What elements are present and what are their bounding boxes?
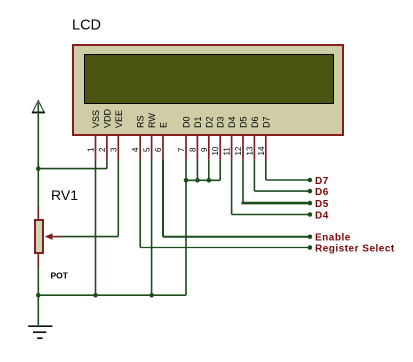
pin stub 9 bbox=[208, 136, 210, 160]
wire: D0-D3 tie bus bbox=[186, 179, 220, 181]
wire: D5 horizontal to terminal (thick) bbox=[242, 202, 310, 205]
pin stub 12 bbox=[242, 136, 244, 160]
svg-text:D0: D0 bbox=[182, 116, 192, 128]
svg-text:14: 14 bbox=[257, 146, 266, 155]
wire: pin14 D7 vertical bbox=[265, 160, 267, 180]
svg-text:VEE: VEE bbox=[114, 110, 124, 128]
svg-text:D6: D6 bbox=[250, 116, 260, 128]
pin stub 2 bbox=[106, 136, 108, 160]
ground symbol bbox=[28, 326, 52, 338]
pot lead bottom bbox=[37, 253, 39, 267]
svg-text:RW: RW bbox=[147, 113, 157, 128]
wire: pin1 VSS down to ground bus bbox=[95, 160, 97, 296]
wire: pin7 D0 vertical bbox=[185, 160, 187, 181]
svg-text:D5: D5 bbox=[315, 199, 329, 210]
svg-text:D3: D3 bbox=[216, 116, 226, 128]
junction D2 tie bbox=[207, 178, 212, 183]
pot wiper arrow bbox=[50, 236, 62, 238]
svg-text:5: 5 bbox=[143, 147, 152, 152]
svg-text:POT: POT bbox=[51, 271, 69, 281]
wire: pin5 RW down to ground bus bbox=[151, 160, 153, 296]
pin stub 6 bbox=[162, 136, 164, 160]
pin stubs (component pins, dark red) bbox=[96, 136, 266, 160]
pin stub 3 bbox=[117, 136, 119, 160]
pin stub 10 bbox=[219, 136, 221, 160]
svg-text:LCD: LCD bbox=[72, 18, 101, 34]
wire: ground bus bottom bbox=[38, 294, 186, 296]
svg-text:D4: D4 bbox=[315, 210, 329, 221]
LCD screen bbox=[85, 55, 334, 104]
svg-text:10: 10 bbox=[211, 146, 220, 155]
wire: D7 horizontal to terminal bbox=[266, 179, 310, 181]
wire: RS horizontal to Register Select terminal bbox=[140, 247, 310, 249]
pin stub 8 bbox=[196, 136, 198, 160]
svg-text:11: 11 bbox=[223, 147, 232, 156]
svg-text:Register Select: Register Select bbox=[315, 243, 395, 254]
junction D1 tie bbox=[195, 178, 200, 183]
wire: pin10 D3 vertical bbox=[219, 160, 221, 181]
svg-text:8: 8 bbox=[188, 147, 197, 152]
svg-text:D2: D2 bbox=[204, 116, 214, 128]
svg-text:13: 13 bbox=[245, 146, 254, 155]
svg-text:9: 9 bbox=[200, 147, 209, 152]
svg-text:6: 6 bbox=[154, 147, 163, 152]
svg-text:D6: D6 bbox=[315, 187, 329, 198]
svg-text:RV1: RV1 bbox=[51, 187, 78, 203]
wire: pin8 D1 vertical bbox=[196, 160, 198, 181]
wire: pin13 D6 vertical bbox=[253, 160, 255, 191]
wire: D4 horizontal to terminal bbox=[232, 214, 310, 216]
pin stub 5 bbox=[151, 136, 153, 160]
wire: pot bottom to ground bbox=[37, 266, 39, 325]
svg-text:12: 12 bbox=[234, 146, 243, 155]
terminal dot D7 bbox=[308, 178, 313, 183]
wire: pin2 vertical bbox=[106, 160, 108, 169]
svg-text:7: 7 bbox=[177, 147, 186, 152]
wire: D0 net down to ground bus bbox=[185, 180, 187, 295]
power symbol (+5V arrow) bbox=[32, 101, 45, 113]
wire: VDD branch rail to pin2 bbox=[38, 168, 107, 170]
junction VSS/ground bus bbox=[93, 293, 98, 298]
svg-text:D7: D7 bbox=[261, 116, 271, 128]
wire: D6 horizontal to terminal bbox=[254, 190, 310, 192]
svg-text:D1: D1 bbox=[193, 116, 203, 128]
svg-text:2: 2 bbox=[98, 147, 107, 152]
junction RW/ground bus bbox=[149, 293, 154, 298]
junction rail/ground bus bbox=[36, 293, 41, 298]
svg-text:VSS: VSS bbox=[91, 110, 101, 128]
svg-text:RS: RS bbox=[136, 115, 146, 128]
wire: pot wiper to pin3 bbox=[62, 236, 119, 238]
svg-text:D7: D7 bbox=[315, 176, 329, 187]
pin stub 4 bbox=[139, 136, 141, 160]
wire: E horizontal to Enable terminal bbox=[163, 236, 310, 238]
wire: pin9 D2 vertical bbox=[208, 160, 210, 181]
pin stub 1 bbox=[95, 136, 97, 160]
svg-text:D4: D4 bbox=[227, 116, 237, 128]
terminal dot Register Select bbox=[308, 245, 313, 250]
wire: pin12 D5 vertical bbox=[242, 160, 244, 203]
junction dots bbox=[36, 166, 312, 297]
pot lead top bbox=[37, 207, 39, 220]
svg-text:E: E bbox=[159, 122, 169, 128]
wire: pin3 VEE vertical bbox=[117, 160, 119, 237]
pin stub 11 bbox=[231, 136, 233, 160]
wire: pin6 E vertical bbox=[162, 160, 164, 237]
svg-text:1: 1 bbox=[87, 147, 96, 152]
svg-text:VDD: VDD bbox=[102, 108, 112, 128]
pin stub 14 bbox=[265, 136, 267, 160]
junction rail/VDD bbox=[36, 166, 41, 171]
pot body bbox=[35, 220, 43, 253]
pin stub 13 bbox=[253, 136, 255, 160]
svg-text:4: 4 bbox=[131, 147, 140, 152]
terminal dot D5 bbox=[308, 201, 313, 206]
wire: power rail down to pot top bbox=[37, 103, 39, 208]
terminal dot D4 bbox=[308, 212, 313, 217]
wire: pin11 D4 vertical bbox=[231, 160, 233, 215]
svg-text:D5: D5 bbox=[239, 116, 249, 128]
svg-text:3: 3 bbox=[109, 147, 118, 152]
LCD module body bbox=[73, 45, 343, 135]
wires (green) bbox=[38, 103, 310, 325]
potentiometer RV1 bbox=[35, 207, 62, 267]
wire: pin4 RS vertical bbox=[139, 160, 141, 248]
pin stub 7 bbox=[185, 136, 187, 160]
terminal dot D6 bbox=[308, 189, 313, 194]
svg-text:Enable: Enable bbox=[315, 233, 351, 244]
junction D0 tie bbox=[184, 178, 189, 183]
terminal dot Enable bbox=[308, 235, 313, 240]
